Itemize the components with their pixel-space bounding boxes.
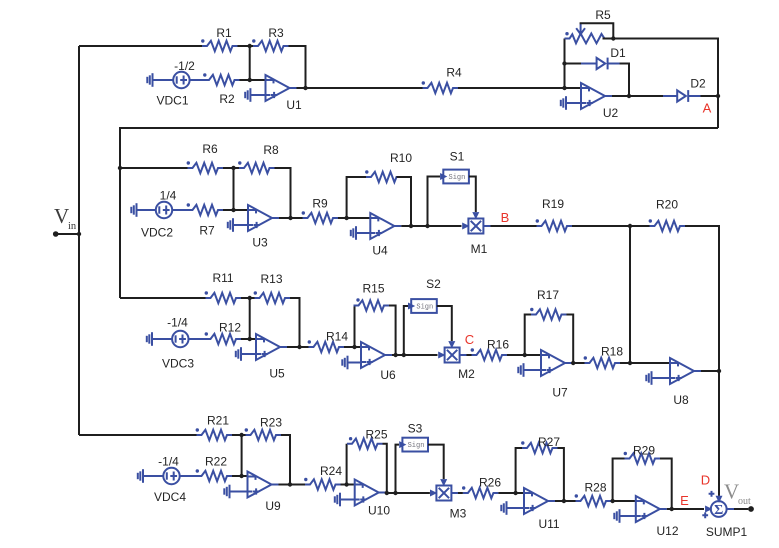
svg-text:V: V [54,204,69,228]
wire R10 loop left [347,177,366,218]
junction R5 wiper [611,36,615,40]
svg-text:R27: R27 [538,435,560,449]
wire ground to U6 [348,362,362,364]
wire ground to U5 [241,353,256,355]
wire row4 top line to R21 [79,434,197,436]
svg-text:R15: R15 [362,282,384,296]
ground VDC2 [131,203,136,217]
wire R25 loop right [383,444,387,493]
ground U9 plus input [224,485,229,499]
terminal Vout [748,506,754,512]
wire R12 to U5 input [241,338,256,340]
wire U9 output to R24 [279,484,306,486]
svg-text:R17: R17 [537,288,559,302]
wire R27 loop left [516,448,522,493]
svg-text:in: in [68,221,77,232]
wire S3 output down to M3 [428,445,444,479]
resistor R5 variable [565,8,611,43]
svg-text:R2: R2 [219,92,235,106]
resistor R9 [302,197,338,224]
arrow into S2 [408,303,415,310]
multiplier M2 [445,348,476,382]
wire R14 to U6 input [344,346,361,348]
wire Vin vertical rail [78,46,80,435]
svg-text:R22: R22 [205,455,227,469]
wire R2 to U1 input [240,79,266,81]
resistor R17 [530,288,566,320]
wire junction down to R2 line [249,46,251,80]
wire ground to U1 [250,94,265,96]
wire to R16 [467,354,472,356]
svg-text:B: B [501,210,510,225]
junction U12 output [670,507,674,511]
ground U5 plus input [236,347,241,361]
node Vout [724,480,751,508]
multiplier M3 [436,486,466,521]
op-amp U3 [247,205,279,250]
wire R10 loop right [397,177,412,226]
op-amp U11 [523,488,560,531]
source VDC1 [156,59,195,108]
resistor R25 [347,428,388,449]
wire R7 to U3 input [223,209,248,211]
wire R27 loop right [558,448,564,501]
wire U2 output to D2 [612,95,664,97]
wire U11 output to R28 [555,500,576,502]
wire U6 output to M2 [392,354,438,356]
svg-text:-1/2: -1/2 [174,59,195,73]
ground U10 plus input [335,493,340,507]
junction U8 output rail [717,369,721,373]
resistor R24 [304,464,342,490]
op-amp U5 [255,334,287,381]
svg-text:S3: S3 [408,422,423,436]
svg-text:S1: S1 [450,150,465,164]
wire R6 to R8 [223,167,239,169]
junction R27 tap [513,491,517,495]
wire junction down to U8 input [629,226,631,363]
svg-text:R9: R9 [312,197,328,211]
wire R5 to right rail [603,39,719,129]
wire ground to VDC3 [152,338,172,340]
wire R23 to U9 output feedback [281,435,290,485]
wire R4 to U2 input [458,87,581,89]
plus mark SUMP1 top input [709,491,715,497]
resistor R12 [205,321,242,345]
svg-text:U11: U11 [538,517,559,531]
junction R25 to U10 output [385,491,389,495]
block S1 sign [443,150,469,184]
resistor R7 [187,203,223,237]
arrow into M2 top [448,341,455,348]
wire R17 loop left [525,315,531,356]
wire D2 to node A [701,95,719,97]
arrow into SUMP1 top [716,496,723,503]
svg-text:D2: D2 [690,77,706,91]
wire R17 loop right [567,315,574,364]
resistor R29 [624,444,660,464]
wire U7 output to R18 [572,362,585,364]
wire Vin stub [56,233,79,235]
junction row2 tap [118,166,122,170]
svg-text:VDC2: VDC2 [141,226,173,240]
wire ground to U10 [340,499,355,501]
svg-text:R4: R4 [446,66,462,80]
resistor R15 [354,282,390,311]
ground U3 plus input [228,218,233,232]
wire SUMP1 output [727,508,749,510]
wire S1 output down to M1 [469,177,476,213]
resistor R1 [201,26,237,51]
wire S2 output down to M2 [437,306,452,341]
arrow into S1 [440,173,447,180]
wire D1 cathode to U2 output [620,64,629,97]
wire ground to U2 [566,102,581,104]
wire to R26 [458,492,463,494]
diode D2 [663,77,706,102]
resistor R27 [521,435,560,453]
wire ground to U8 [652,377,671,379]
svg-text:VDC3: VDC3 [162,357,194,371]
svg-text:U1: U1 [286,98,302,112]
wire U8 output to rail [701,370,719,372]
wire VDC4 to R22 [180,475,197,477]
svg-text:U5: U5 [269,367,285,381]
wire R15 loop right [389,306,396,356]
resistor R22 [196,455,232,482]
wire M3 output [452,492,458,494]
svg-text:U8: U8 [673,393,689,407]
junction R22 node [239,474,243,478]
resistor R14 [308,330,349,353]
junction S1 tap [425,224,429,228]
op-amp U6 [360,342,396,382]
svg-text:SUMP1: SUMP1 [706,525,748,539]
svg-text:R26: R26 [479,476,501,490]
wire R15 loop left [354,306,356,348]
wire frame top row2 [120,128,718,298]
svg-text:R10: R10 [390,151,412,165]
wire R8 to U3 output feedback [275,168,291,218]
junction U1 output [303,86,307,90]
op-amp U12 [635,496,679,538]
wire R22 to U9 input [232,475,248,477]
junction R17 tap [523,353,527,357]
ground U8 plus input [646,371,651,385]
svg-text:1/4: 1/4 [160,189,177,203]
wire R29 loop left [613,459,625,502]
junction U2 input node [562,86,566,90]
svg-text:M1: M1 [471,242,488,256]
junction U7 output [571,361,575,365]
node A [703,94,721,116]
wire R18 to U8 input [620,362,670,364]
svg-text:C: C [465,332,474,347]
op-amp U10 [354,480,391,518]
svg-text:U6: U6 [380,368,396,382]
op-amp U4 [369,213,401,258]
plus mark SUMP1 left input [702,512,708,518]
junction R10 tap [344,216,348,220]
wire ground to U9 [230,491,248,493]
op-amp U9 [247,472,281,514]
resistor R26 [462,476,501,499]
junction U3 output [288,216,292,220]
svg-text:U10: U10 [368,504,390,518]
svg-text:R13: R13 [260,272,282,286]
arrow into M3 left [430,490,437,497]
svg-text:R18: R18 [601,345,623,359]
junction S3 tap [393,491,397,495]
resistor R10 [365,151,412,182]
wire VDC2 to R7 [172,209,187,211]
wire ground to VDC1 [153,79,174,81]
ground U6 plus input [342,356,347,370]
ground U7 plus input [518,363,523,377]
op-amp U2 [580,83,618,120]
svg-text:R3: R3 [268,26,284,40]
svg-text:R23: R23 [260,416,282,430]
wire R3 to U1 output feedback [289,46,306,88]
arrow into S3 [399,441,406,448]
wire R19 to R20 [572,225,650,227]
wire U12 output to SUMP1 [667,508,704,510]
junction R15 tap [352,345,356,349]
wire M2 output [460,354,466,356]
ground U12 plus input [614,509,619,523]
multiplier M1 [468,219,487,257]
op-amp U1 [265,75,302,112]
svg-text:U3: U3 [252,236,268,250]
junction R10 to U4 output [409,224,413,228]
junction U5 output [297,345,301,349]
svg-text:D1: D1 [610,46,626,60]
svg-text:E: E [680,493,689,508]
node Vin input terminal [53,204,77,237]
svg-text:U2: U2 [603,106,619,120]
wire M1 output [484,225,491,227]
resistor R8 [238,143,279,173]
resistor R28 [575,481,611,507]
wire S3 loop left [396,445,400,493]
resistor R13 [254,272,290,303]
junction R11 R13 [248,296,252,300]
junction R19 R20 [628,224,632,228]
svg-text:VDC1: VDC1 [156,94,188,108]
wire ground to U12 [620,515,636,517]
wire junction down to R12 line [249,298,251,339]
wire R16 to U7 input [507,354,541,356]
ground U1 plus input [245,88,250,102]
wire U3 output to R9 [279,217,303,219]
svg-text:A: A [703,101,712,116]
wire R20 to right rail down [685,226,719,496]
wire ground to U4 [356,232,370,234]
wire VDC1 to R2 [190,79,204,81]
junction R2 node [248,78,252,82]
svg-text:D: D [701,473,710,488]
wire U5 output to R14 [287,346,309,348]
resistor R2 [203,73,239,106]
wire R24 to U10 input [341,484,355,486]
wire ground to U11 [507,507,525,509]
junction R25 tap [344,482,348,486]
svg-text:R1: R1 [216,26,232,40]
wire R26 to U11 input [498,492,524,494]
wire row3 top line to R11 [120,297,206,299]
arrow into M3 top [440,479,447,486]
svg-text:R12: R12 [219,321,241,335]
op-amp U8 [669,358,701,407]
wire R29 loop right [660,459,672,510]
junction S2 tap [402,353,406,357]
wire S1 loop left [428,177,441,227]
resistor R16 [471,338,510,361]
wire node B to R19 [491,225,537,227]
junction D1 tap [562,61,566,65]
arrow into M1 top [472,212,479,219]
wire R28 to U12 input [611,500,636,502]
arrow into M2 left [438,352,445,359]
ground U4 plus input [351,226,356,240]
block S3 sign [402,422,428,452]
svg-text:R25: R25 [365,428,387,442]
wire ground to VDC2 [137,209,156,211]
wire R5 left lead [565,38,568,40]
wire row2 top line to R6 [120,167,188,169]
wire ground to VDC4 [143,475,163,477]
wire R9 to U4 input [338,217,370,219]
junction R1 R3 R2 [248,44,252,48]
ground VDC4 [138,469,143,483]
wire D1 anode [565,63,587,65]
wire U4 output to M1 [401,225,461,227]
source VDC2 [141,189,177,240]
ground U2 plus input [561,96,566,110]
svg-text:R28: R28 [584,481,606,495]
junction R7 node [231,208,235,212]
svg-text:R21: R21 [207,414,229,428]
junction U11 output [562,499,566,503]
wire U1 output to R4 [297,87,423,89]
wire S2 loop left [404,306,408,355]
svg-text:R5: R5 [595,8,611,22]
ground U11 plus input [501,501,506,515]
wire R13 to U5 output feedback [290,298,300,347]
resistor R3 [252,26,288,51]
svg-text:M2: M2 [458,367,475,381]
wire junction down to R7 line [233,168,235,210]
svg-text:R20: R20 [656,198,678,212]
resistor R6 [187,142,223,173]
wire R1 to R3 [238,45,254,47]
resistor R19 [536,197,572,231]
wire VDC3 to R12 [189,338,206,340]
svg-text:R29: R29 [633,444,655,458]
svg-text:R24: R24 [320,464,342,478]
wire U10 output to M3 [386,492,430,494]
svg-text:U7: U7 [552,386,568,400]
junction U9 output [288,482,292,486]
wire R5 wiper bracket [581,23,614,38]
resistor R11 [205,271,241,303]
svg-text:V: V [724,480,739,504]
junction R21 R23 [239,433,243,437]
resistor R18 [584,345,624,369]
wire R25 loop left [346,444,348,485]
svg-text:M3: M3 [450,507,467,521]
svg-text:out: out [738,496,751,507]
svg-text:VDC4: VDC4 [154,490,186,504]
wire row1 top line to R1 [79,45,202,47]
svg-text:U4: U4 [372,244,388,258]
svg-text:R6: R6 [202,142,218,156]
svg-text:R7: R7 [199,224,215,238]
wire junction down to R22 line [241,435,243,476]
svg-text:S2: S2 [426,277,441,291]
resistor R20 [649,198,685,232]
junction R15 to U6 output [393,353,397,357]
op-amp U7 [540,350,572,400]
wire ground to U7 [524,369,542,371]
svg-text:R19: R19 [542,197,564,211]
svg-text:-1/4: -1/4 [158,455,179,469]
source VDC4 [154,455,186,505]
junction R29 tap [610,499,614,503]
diode D1 [581,46,626,69]
svg-text:U12: U12 [656,524,678,538]
resistor R4 [422,66,462,94]
svg-text:-1/4: -1/4 [167,316,188,330]
wire U2 input feedback vertical [564,39,566,89]
junction R6 R8 [231,166,235,170]
svg-text:U9: U9 [265,499,281,513]
svg-text:R11: R11 [212,271,233,285]
block S2 sign [411,277,441,313]
ground VDC1 [147,73,152,87]
wire R11 to R13 [241,297,255,299]
summer SUMP1 [706,501,748,539]
source VDC3 [162,316,194,371]
junction U2 output [627,94,631,98]
wire R21 to R23 [232,434,246,436]
svg-text:R16: R16 [487,338,509,352]
resistor R21 [196,414,232,441]
resistor R23 [245,416,283,441]
svg-text:R14: R14 [326,330,348,344]
ground VDC3 [147,332,152,346]
junction Vin rail [77,232,81,236]
wire ground to U3 [233,224,248,226]
svg-text:R8: R8 [263,143,279,157]
arrow into M1 left [462,223,469,230]
arrow into SUMP1 left [705,506,712,513]
junction R12 node [248,337,252,341]
junction R18 rail [628,361,632,365]
